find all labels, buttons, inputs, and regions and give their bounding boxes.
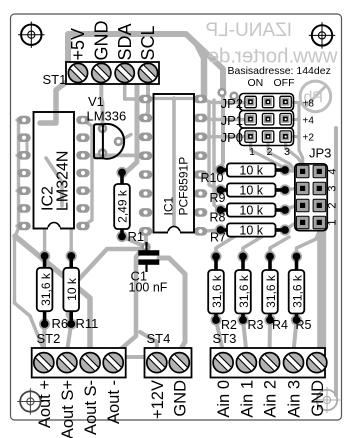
svg-text:+5V: +5V <box>68 28 88 61</box>
svg-text:SCL: SCL <box>138 25 158 60</box>
svg-text:JP3: JP3 <box>309 146 331 161</box>
svg-text:10 k: 10 k <box>65 277 79 301</box>
svg-text:ST3: ST3 <box>213 331 237 346</box>
svg-text:Ain 1: Ain 1 <box>238 380 256 418</box>
svg-text:R7: R7 <box>210 231 226 245</box>
svg-text:1: 1 <box>327 219 339 225</box>
svg-text:2: 2 <box>267 146 273 158</box>
svg-text:10 k: 10 k <box>239 164 263 178</box>
svg-text:Ain 2: Ain 2 <box>262 380 280 418</box>
svg-text:R8: R8 <box>210 211 226 225</box>
svg-text:ON: ON <box>248 77 264 89</box>
svg-text:10 k: 10 k <box>239 184 263 198</box>
svg-text:1: 1 <box>249 146 255 158</box>
svg-text:ST1: ST1 <box>43 72 67 87</box>
svg-text:GND: GND <box>92 21 112 61</box>
svg-text:100 nF: 100 nF <box>129 281 168 295</box>
svg-text:Aout S+: Aout S+ <box>59 380 77 438</box>
svg-text:R2: R2 <box>221 318 237 332</box>
svg-text:IC1: IC1 <box>162 197 176 216</box>
svg-text:31,6 k: 31,6 k <box>291 274 305 308</box>
svg-text:R4: R4 <box>272 318 288 332</box>
svg-text:2,49 k: 2,49 k <box>116 189 130 223</box>
svg-text:Aout S-: Aout S- <box>82 380 100 435</box>
svg-text:31,6 k: 31,6 k <box>264 274 278 308</box>
svg-text:Basisadresse: 144dez: Basisadresse: 144dez <box>228 65 331 77</box>
svg-text:+2: +2 <box>303 133 315 144</box>
svg-text:R11: R11 <box>76 316 99 331</box>
svg-text:R6: R6 <box>52 316 69 331</box>
svg-text:ST4: ST4 <box>147 331 171 346</box>
svg-text:JP1: JP1 <box>221 113 243 128</box>
svg-text:GND: GND <box>171 380 189 417</box>
svg-text:V1: V1 <box>88 94 104 109</box>
svg-text:IZANU-LP: IZANU-LP <box>205 20 292 41</box>
svg-text:+4: +4 <box>303 116 315 127</box>
svg-text:+12V: +12V <box>149 380 167 419</box>
svg-text:31,6 k: 31,6 k <box>39 272 53 306</box>
svg-text:10 k: 10 k <box>239 224 263 238</box>
svg-text:4: 4 <box>327 168 339 174</box>
svg-text:2: 2 <box>327 202 339 208</box>
svg-text:Ain 3: Ain 3 <box>286 380 304 418</box>
svg-text:R5: R5 <box>296 318 312 332</box>
svg-text:Ain 0: Ain 0 <box>215 380 233 418</box>
svg-text:Aout -: Aout - <box>105 380 123 424</box>
svg-text:+8: +8 <box>303 99 315 110</box>
svg-text:R3: R3 <box>248 318 264 332</box>
svg-text:OFF: OFF <box>274 77 295 89</box>
svg-text:R9: R9 <box>210 191 226 205</box>
svg-text:PCF8591P: PCF8591P <box>177 157 191 216</box>
svg-text:3: 3 <box>284 146 290 158</box>
svg-text:R10: R10 <box>201 171 224 185</box>
svg-text:LM336: LM336 <box>87 109 127 124</box>
svg-text:10 k: 10 k <box>239 204 263 218</box>
svg-text:3: 3 <box>327 185 339 191</box>
svg-text:JP0: JP0 <box>221 130 243 145</box>
svg-text:SDA: SDA <box>115 23 135 60</box>
svg-text:ST2: ST2 <box>37 331 61 346</box>
svg-text:GND: GND <box>309 380 327 417</box>
svg-text:31,6 k: 31,6 k <box>210 274 224 308</box>
svg-text:31,6 k: 31,6 k <box>237 274 251 308</box>
svg-text:R1: R1 <box>128 229 145 244</box>
svg-text:Aout +: Aout + <box>36 380 54 428</box>
svg-text:JP2: JP2 <box>221 96 243 111</box>
svg-text:LM324N: LM324N <box>55 151 72 211</box>
